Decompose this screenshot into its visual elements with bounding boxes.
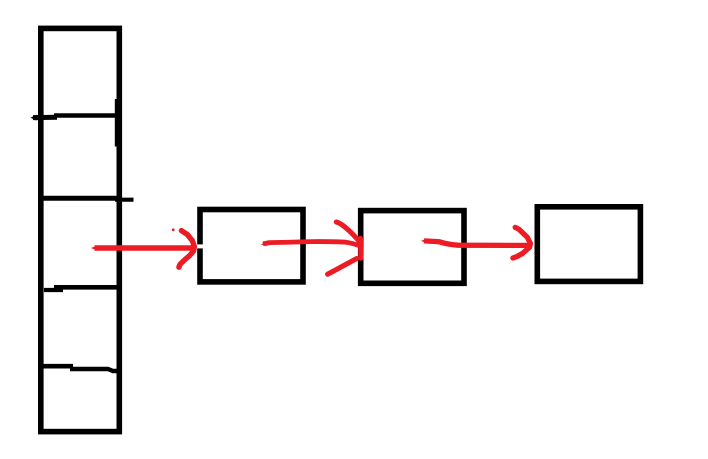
red arrow 1 shaft xyxy=(95,245,194,251)
red arrow 3 head xyxy=(513,227,531,258)
node box 3 xyxy=(537,207,640,282)
array divider 3 xyxy=(44,288,63,292)
small gap in box 1 left edge xyxy=(197,244,204,248)
red speck xyxy=(172,228,175,231)
array divider 1 xyxy=(33,115,57,120)
red arrow 3 shaft xyxy=(424,241,529,246)
retraced stroke on right edge xyxy=(115,99,119,147)
array divider 4 xyxy=(42,364,73,369)
node box 1 xyxy=(200,210,303,282)
array divider 1 left tip xyxy=(31,115,37,121)
array column outline xyxy=(41,28,120,431)
red arrow 2 shaft xyxy=(263,242,360,246)
red arrow 2 head lower stroke xyxy=(328,259,357,275)
red arrow 2 head vertical stroke xyxy=(358,238,364,258)
array divider 2 xyxy=(43,196,120,201)
array divider 2 right overshoot xyxy=(115,198,134,202)
node box 2 xyxy=(361,211,464,284)
red arrow 1 head xyxy=(179,231,195,268)
red arrow 2 head upper stroke xyxy=(336,222,359,241)
